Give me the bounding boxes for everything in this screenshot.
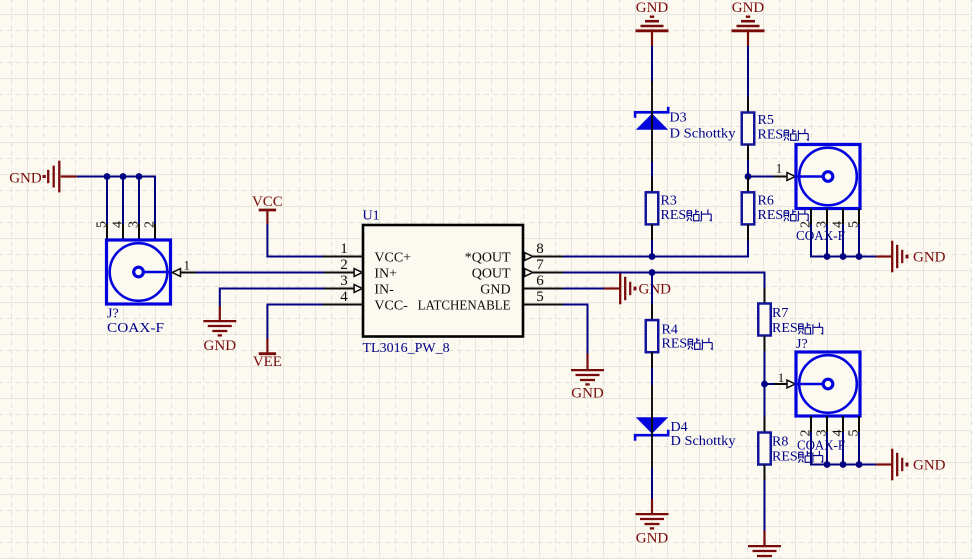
pin 2 IN+ of U1 [324, 257, 397, 281]
wire R7 to junction [764, 351, 766, 384]
junction on shield rail x=107 [104, 173, 111, 180]
junction on shield rail x=123 [120, 173, 127, 180]
wire shield drop pin3 [138, 177, 140, 226]
ground GND at LATCHENABLE [571, 354, 604, 402]
pin 3 of J? (top right) [814, 209, 829, 229]
wire U1 IN- to ground [220, 289, 324, 307]
ground GND chassis (left input shield) [9, 161, 77, 193]
svg-text:VEE: VEE [253, 354, 282, 370]
ground GND below R8 [748, 531, 781, 559]
svg-text:VCC+: VCC+ [374, 250, 411, 265]
wire D3 anode to R3 [651, 162, 653, 178]
svg-text:5: 5 [94, 221, 109, 228]
pin 1 of J? (left) [172, 259, 196, 277]
pin 5 LATCHENABLE of U1 [418, 289, 563, 313]
svg-text:GND: GND [9, 170, 42, 186]
junction shield rail x=827 [824, 253, 831, 260]
wire *QOUT net to R6 [563, 240, 748, 257]
svg-text:GND: GND [913, 249, 946, 265]
wire junction to J? pin1 (bottom right) [765, 383, 775, 385]
svg-text:1: 1 [184, 259, 190, 273]
power port VEE [253, 338, 282, 370]
junction R7/R8/J? pin1 [761, 381, 768, 388]
ground GND chassis (bottom right) [876, 449, 946, 481]
pin 5 of J? (bottom right) [846, 416, 861, 437]
pin 4 of J? (bottom right) [830, 416, 845, 437]
junction shield rail x=827 (bottom) [824, 461, 831, 468]
svg-text:COAX-F: COAX-F [796, 229, 845, 244]
pin 7 QOUT of U1 [472, 257, 563, 281]
resistor R5 RES贴片 [742, 97, 808, 161]
svg-text:GND: GND [571, 386, 604, 402]
wire shield drop pin5 [106, 177, 108, 226]
svg-text:5: 5 [536, 289, 544, 305]
svg-text:RES: RES [772, 449, 798, 464]
svg-text:2: 2 [142, 221, 157, 228]
wire shield rail (bottom right) [811, 432, 877, 465]
wire VEE to U1 VCC- [267, 305, 324, 339]
svg-text:RES: RES [758, 127, 784, 142]
resistor R6 RES贴片 [742, 177, 808, 241]
wire GND to D3 cathode [651, 46, 653, 82]
svg-text:RES: RES [758, 208, 784, 223]
junction shield rail x=859 (bottom) [856, 461, 863, 468]
svg-text:1: 1 [778, 371, 784, 385]
pin 2 of J? (left) [142, 221, 157, 240]
junction *QOUT / R3 [649, 253, 656, 260]
connector J? COAX-F (bottom right) [796, 337, 860, 453]
diode D4 Schottky [635, 385, 735, 469]
junction R5/R6/J? pin1 [745, 173, 752, 180]
wire QOUT net to R4 [651, 273, 653, 305]
svg-text:U1: U1 [363, 208, 380, 223]
junction shield rail x=843 (bottom) [840, 461, 847, 468]
pin 4 VCC- of U1 [323, 289, 408, 313]
diode D3 Schottky [635, 81, 735, 162]
wire J? pin1 to U1 IN+ [196, 272, 324, 274]
svg-text:4: 4 [110, 221, 125, 228]
junction shield rail x=843 [840, 253, 847, 260]
wire VCC to U1 VCC+ [267, 224, 324, 257]
svg-text:LATCHENABLE: LATCHENABLE [418, 298, 511, 313]
resistor R3 RES贴片 [646, 177, 711, 241]
svg-text:R4: R4 [662, 323, 678, 338]
pin 1 of J? (bottom right) [774, 371, 795, 388]
svg-text:GND: GND [732, 0, 765, 16]
junction shield rail x=859 [856, 253, 863, 260]
svg-text:D3: D3 [670, 110, 687, 125]
svg-text:IN-: IN- [374, 282, 394, 297]
svg-text:6: 6 [536, 273, 544, 289]
pin 2 of J? (top right) [798, 209, 813, 229]
ground GND at U1 IN- [203, 306, 236, 354]
svg-text:D4: D4 [671, 420, 688, 435]
pin 3 of J? (left) [126, 221, 141, 240]
wire junction to J? pin1 (top right) [748, 176, 775, 178]
junction on shield rail x=139 [136, 173, 143, 180]
svg-text:GND: GND [204, 338, 237, 354]
power port VCC [252, 194, 283, 225]
svg-text:3: 3 [340, 273, 348, 289]
svg-text:VCC: VCC [252, 194, 283, 210]
svg-text:R3: R3 [661, 194, 677, 209]
svg-text:VCC-: VCC- [374, 298, 408, 313]
svg-text:IN+: IN+ [374, 266, 397, 281]
svg-text:2: 2 [340, 257, 348, 273]
pin 4 of J? (left) [110, 221, 125, 240]
svg-text:R7: R7 [772, 306, 788, 321]
svg-text:4: 4 [340, 289, 348, 305]
wire R4 to D4 anode [651, 368, 653, 386]
wire R5 to junction [747, 160, 749, 177]
op-amp U1 TL3016_PW_8 comparator body [363, 208, 524, 355]
ground GND below D4 [636, 499, 669, 547]
pin 4 of J? (top right) [830, 209, 845, 229]
connector J? COAX-F (left) [107, 240, 171, 336]
pin 5 of J? (left) [94, 221, 109, 240]
junction QOUT / R4 [649, 269, 656, 276]
svg-text:GND: GND [480, 282, 510, 297]
wire GND to R5 [747, 46, 749, 97]
wire shield rail (top right) [811, 225, 877, 257]
svg-text:TL3016_PW_8: TL3016_PW_8 [363, 341, 450, 356]
wire U1 LATCHENABLE to ground [563, 305, 588, 355]
svg-text:J?: J? [107, 306, 119, 321]
svg-text:R6: R6 [758, 194, 774, 209]
pin 6 GND of U1 [480, 273, 563, 297]
resistor R8 RES贴片 [758, 417, 822, 481]
connector J? COAX-F (top right) [796, 145, 860, 245]
svg-text:RES: RES [772, 321, 798, 336]
svg-text:R8: R8 [772, 434, 788, 449]
wire D4 cathode to ground [651, 469, 653, 501]
power GND (top of R5) [732, 0, 765, 46]
svg-text:D Schottky: D Schottky [670, 126, 736, 141]
svg-text:1: 1 [340, 241, 348, 257]
svg-text:RES: RES [662, 336, 688, 351]
pin 2 of J? (bottom right) [798, 416, 813, 437]
wire QOUT net to R7 [563, 273, 765, 289]
svg-text:7: 7 [536, 257, 544, 273]
svg-text:RES: RES [661, 208, 687, 223]
ground GND chassis (top right) [876, 241, 946, 273]
svg-text:COAX-F: COAX-F [107, 321, 164, 336]
svg-text:R5: R5 [758, 113, 774, 128]
svg-text:1: 1 [776, 161, 782, 175]
resistor R7 RES贴片 [758, 288, 822, 352]
wire shield drop pin4 [122, 177, 124, 226]
pin 3 IN- of U1 [324, 273, 394, 297]
wire junction to R8 [764, 384, 766, 417]
resistor R4 RES贴片 [646, 304, 712, 368]
pin 3 of J? (bottom right) [814, 416, 829, 437]
wire GND rail to J? shield pins [77, 176, 156, 178]
svg-text:GND: GND [636, 531, 669, 547]
pin 5 of J? (top right) [846, 209, 861, 229]
svg-text:3: 3 [126, 221, 141, 228]
svg-text:8: 8 [536, 241, 544, 257]
svg-text:J?: J? [796, 337, 808, 352]
svg-text:GND: GND [636, 0, 669, 16]
svg-text:D Schottky: D Schottky [671, 434, 736, 449]
svg-text:COAX-F: COAX-F [797, 438, 845, 453]
pin 8 *QOUT of U1 [465, 241, 563, 265]
wire R3 to *QOUT net [651, 240, 653, 257]
pin 1 VCC+ of U1 [323, 241, 411, 265]
power GND (top of D3) [636, 0, 669, 46]
wire U1 GND pin to chassis ground [563, 288, 604, 290]
wire R8 to ground [764, 480, 766, 532]
svg-text:GND: GND [913, 457, 946, 473]
wire shield drop pin2 [154, 176, 156, 226]
svg-text:*QOUT: *QOUT [465, 250, 511, 265]
svg-text:GND: GND [639, 281, 672, 297]
ground GND chassis at U1 pin6 [604, 273, 671, 305]
svg-text:QOUT: QOUT [472, 266, 511, 281]
pin 1 of J? (top right) [774, 161, 795, 180]
